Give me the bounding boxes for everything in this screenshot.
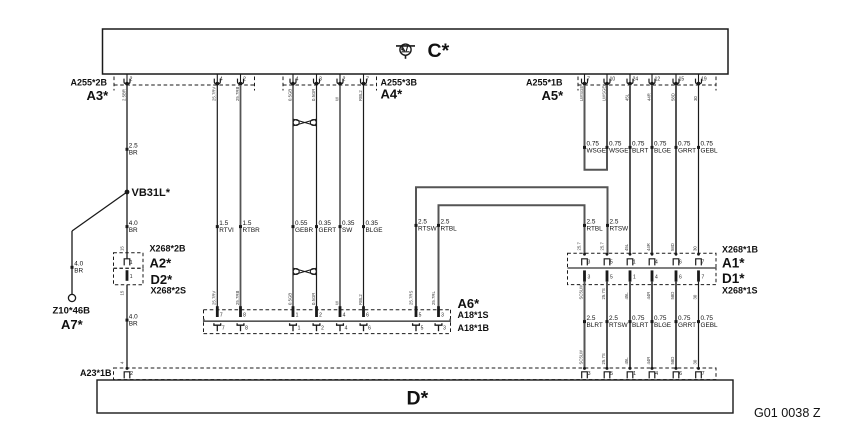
pin 1 of D1* (bar): [629, 270, 632, 281]
svg-text:45L: 45L: [624, 93, 629, 101]
pin 2 of A18*1S (bar): [315, 306, 318, 317]
wire 0.75 BLRT from D1* to A23*1B: [629, 282, 631, 368]
svg-text:LWSGE: LWSGE: [601, 86, 606, 101]
pin 6 of A23*1B (socket): [675, 367, 678, 370]
svg-text:D1*: D1*: [722, 271, 745, 286]
svg-text:A6*: A6*: [458, 296, 481, 311]
svg-text:3: 3: [319, 77, 322, 83]
svg-text:BLRT: BLRT: [632, 322, 648, 329]
svg-text:WSGE: WSGE: [609, 148, 629, 155]
wire 0.75 BLGE from D1* to A23*1B: [651, 282, 653, 368]
svg-text:0.35: 0.35: [342, 220, 355, 227]
svg-text:2: 2: [343, 77, 346, 83]
pin 7 of A18*1B (T socket): [214, 323, 221, 325]
connector A2* dashed box (X268*2B): [114, 253, 144, 268]
svg-text:25.7S: 25.7S: [601, 288, 606, 299]
svg-text:0.75: 0.75: [609, 141, 622, 148]
svg-text:25.7RB: 25.7RB: [235, 87, 240, 101]
wire value label 0.75 GEBL: [697, 320, 700, 323]
svg-text:4.0: 4.0: [74, 261, 83, 268]
svg-text:0.35: 0.35: [366, 220, 379, 227]
svg-text:1: 1: [298, 325, 301, 331]
wire value label 0.75 BLRT: [629, 146, 632, 149]
svg-text:2.5: 2.5: [609, 315, 618, 322]
svg-text:RBL2: RBL2: [358, 294, 363, 305]
svg-text:2.5: 2.5: [587, 219, 596, 226]
svg-text:25.7RL: 25.7RL: [431, 291, 436, 305]
wire 0.75 GEBL from A5* to X268*1B: [698, 85, 700, 254]
svg-text:6: 6: [368, 325, 371, 331]
svg-text:BLGE: BLGE: [654, 148, 671, 155]
svg-text:0.75: 0.75: [678, 315, 691, 322]
connector A1* dashed box (X268*1B): [568, 253, 717, 268]
pin 15 of connector row at x=676.0: [675, 74, 677, 82]
svg-text:GRRT: GRRT: [678, 322, 696, 329]
svg-text:BR: BR: [129, 320, 138, 327]
svg-text:45L: 45L: [624, 243, 629, 251]
svg-text:0.75: 0.75: [654, 141, 667, 148]
pin 7 of connector row at x=584.5: [584, 74, 586, 82]
pin 5 of A18*1S (bar): [415, 306, 418, 317]
svg-text:2.5: 2.5: [418, 219, 427, 226]
twisted pair symbol lower (GEBR/GERT): [293, 269, 299, 275]
svg-text:44R: 44R: [646, 357, 651, 365]
svg-text:30: 30: [693, 96, 698, 101]
svg-text:GERT: GERT: [319, 227, 337, 234]
svg-text:0.5GB: 0.5GB: [287, 89, 292, 101]
svg-text:X268*2B: X268*2B: [150, 243, 187, 253]
svg-text:2.5: 2.5: [610, 219, 619, 226]
svg-text:GEBL: GEBL: [701, 148, 718, 155]
wire 0.75 GEBL from D1* to A23*1B: [698, 282, 700, 368]
pin 7 of D1* (bar): [697, 270, 700, 281]
svg-text:7: 7: [220, 312, 223, 318]
svg-text:12: 12: [655, 77, 661, 83]
svg-text:44R: 44R: [646, 292, 651, 300]
wire label 4.0 BR: [126, 225, 129, 228]
svg-text:Z10*46B: Z10*46B: [53, 306, 91, 317]
svg-text:45L: 45L: [624, 292, 629, 300]
svg-text:A3*: A3*: [87, 88, 110, 103]
wire 0.35 SW from top connector to A6*: [339, 85, 341, 307]
wire 2.5 BLRT from D1* to A23*1B: [584, 282, 586, 368]
svg-text:0.75: 0.75: [701, 141, 714, 148]
pin 24 of connector row at x=630.0: [629, 74, 631, 82]
svg-text:RTSW: RTSW: [610, 226, 630, 233]
svg-text:58D: 58D: [670, 93, 675, 101]
wire 0.75 GRRT from A5* to X268*1B: [675, 85, 677, 254]
wire value label 1.5 RTBR: [239, 225, 242, 228]
pin 1 of A23*1B (socket): [629, 367, 632, 370]
svg-text:3: 3: [443, 325, 446, 331]
svg-text:A1*: A1*: [722, 256, 745, 271]
pin 1 socket in A2*: [124, 259, 130, 266]
pin 1 of A1* (socket): [629, 253, 632, 256]
svg-text:2: 2: [319, 312, 322, 318]
wire 2.5 BR from A3* pin 2 down to node VB31L*: [126, 85, 128, 192]
svg-text:0.5GR: 0.5GR: [311, 89, 316, 101]
pin 3 of connector row at x=316.5: [316, 74, 318, 82]
wire value label 0.75 GEBL: [697, 146, 700, 149]
svg-text:RTSW: RTSW: [609, 322, 629, 329]
pin 4 of D1* (bar): [651, 270, 654, 281]
svg-text:30: 30: [693, 246, 698, 251]
svg-text:GEBL: GEBL: [701, 322, 718, 329]
pin 8 of A18*1S (bar): [239, 306, 242, 317]
pin 5 of D1* (bar): [606, 270, 609, 281]
pin 6 of A1* (socket): [675, 253, 678, 256]
svg-text:8: 8: [243, 312, 246, 318]
node VB31L* junction dot: [125, 190, 130, 195]
wire 4.0 BR from D2* to A23*1B: [126, 285, 128, 368]
svg-text:A23*1B: A23*1B: [80, 368, 112, 378]
svg-text:X268*1B: X268*1B: [722, 244, 759, 254]
svg-text:6: 6: [679, 260, 682, 266]
svg-text:D*: D*: [407, 388, 429, 410]
pin 2 of A18*1B (T socket): [313, 323, 320, 325]
svg-text:X268*1S: X268*1S: [722, 286, 758, 296]
svg-text:58D: 58D: [670, 357, 675, 365]
pin 1 bar in D2*: [126, 270, 129, 281]
svg-text:BR: BR: [129, 227, 138, 234]
svg-text:1.5: 1.5: [219, 220, 228, 227]
pin 3 of A23*1B (socket): [583, 367, 586, 370]
wire value label 0.35 BLGE: [362, 225, 365, 228]
svg-text:0.55: 0.55: [295, 220, 308, 227]
pin 2 of connector row at x=340.0: [339, 74, 341, 82]
svg-text:6: 6: [679, 275, 682, 281]
svg-text:0.75: 0.75: [587, 141, 600, 148]
svg-text:RTBR: RTBR: [243, 227, 261, 234]
pin 4 of A23*1B (socket): [651, 367, 654, 370]
svg-text:4: 4: [655, 260, 658, 266]
pin 3 of D1* (bar): [583, 270, 586, 281]
svg-text:SC5LW: SC5LW: [579, 284, 584, 299]
svg-text:BLGE: BLGE: [654, 322, 671, 329]
icon instrument-cluster symbol in C*: [396, 44, 415, 59]
wire 4.0 BR from VB31L* down to connector A2*: [126, 192, 128, 259]
svg-text:BR: BR: [74, 268, 83, 275]
wire 1.5 RTVI from top connector to A6*: [216, 85, 218, 307]
twisted pair symbol upper (GEBR/GERT): [293, 120, 299, 126]
svg-text:7: 7: [222, 325, 225, 331]
svg-text:1: 1: [633, 275, 636, 281]
svg-text:15: 15: [679, 77, 685, 83]
svg-text:7: 7: [702, 260, 705, 266]
svg-text:19: 19: [701, 77, 707, 83]
control unit C1 box C*: [103, 29, 729, 74]
svg-text:5: 5: [610, 371, 613, 377]
svg-text:7: 7: [702, 371, 705, 377]
pin 12 of connector row at x=652.0: [651, 74, 653, 82]
svg-text:25.7RS: 25.7RS: [409, 291, 414, 305]
connector A23*1B dashed box: [114, 368, 717, 380]
svg-text:RTVI: RTVI: [219, 227, 234, 234]
svg-text:4: 4: [220, 77, 223, 83]
wire 2.5 RTBL horizontal link A6* pin3 to X268*1B pin3: [439, 205, 585, 306]
pin 2 of A23*1B (socket): [126, 367, 129, 370]
wire label 0.75 WSGE left: [583, 146, 586, 149]
pin 7 of A1* (socket): [697, 253, 700, 256]
connector mating bus line in A6*: [204, 319, 450, 321]
svg-text:0.5GR: 0.5GR: [311, 293, 316, 305]
wire value label 0.75 GRRT: [675, 320, 678, 323]
svg-text:25.7RB: 25.7RB: [235, 291, 240, 305]
wire label 4.0 BR lower: [126, 319, 129, 322]
pin 2 of connector row at x=127.0: [126, 74, 128, 82]
svg-text:0.75: 0.75: [654, 315, 667, 322]
svg-text:5: 5: [421, 325, 424, 331]
svg-text:GEBR: GEBR: [295, 227, 313, 234]
svg-text:RTBL: RTBL: [441, 226, 458, 233]
pin 19 of connector row at x=698.5: [698, 74, 700, 82]
svg-text:1: 1: [296, 312, 299, 318]
svg-text:VB31L*: VB31L*: [132, 187, 171, 199]
connector A255*2B dashed face: [114, 84, 255, 86]
svg-text:44R: 44R: [646, 243, 651, 251]
wire label 2.5 RTBL at A6*: [437, 224, 440, 227]
svg-text:44R: 44R: [646, 93, 651, 101]
svg-text:7: 7: [702, 275, 705, 281]
svg-text:25.7RV: 25.7RV: [212, 87, 217, 101]
pin 3 of A18*1B (T socket): [435, 323, 442, 325]
connector D2* dashed box (X268*2S): [114, 268, 144, 285]
svg-text:30: 30: [693, 294, 698, 299]
svg-text:WSGE: WSGE: [587, 148, 607, 155]
svg-text:LWSGE: LWSGE: [579, 86, 584, 101]
svg-text:G01 0038 Z: G01 0038 Z: [754, 406, 821, 420]
pin 4 of A18*1S (bar): [339, 306, 342, 317]
svg-text:1: 1: [633, 371, 636, 377]
wire 0.35 GERT from top connector to A6*: [316, 85, 318, 307]
svg-text:X268*2S: X268*2S: [151, 285, 187, 295]
svg-text:5: 5: [610, 275, 613, 281]
svg-text:8: 8: [245, 325, 248, 331]
wire value label 0.75 BLGE: [651, 146, 654, 149]
svg-text:2.5: 2.5: [129, 143, 138, 150]
svg-text:GRRT: GRRT: [678, 148, 696, 155]
pin 6 of A18*1S (bar): [362, 306, 365, 317]
wire value label 0.75 GRRT: [675, 146, 678, 149]
pin 8 of A18*1B (T socket): [237, 323, 244, 325]
svg-text:BR: BR: [129, 150, 138, 157]
svg-text:2: 2: [130, 77, 133, 83]
wire 0.35 BLGE from top connector to A6*: [363, 85, 365, 307]
svg-text:A255*2B: A255*2B: [71, 77, 108, 87]
pin 3 of A1* (socket): [583, 253, 586, 256]
svg-text:4: 4: [343, 312, 346, 318]
svg-text:1.5: 1.5: [243, 220, 252, 227]
svg-text:RTBL: RTBL: [587, 226, 604, 233]
svg-text:2.5: 2.5: [587, 315, 596, 322]
svg-text:30: 30: [693, 359, 698, 364]
pin 7 of connector row at x=363.5: [363, 74, 365, 82]
svg-text:4: 4: [345, 325, 348, 331]
svg-text:15: 15: [120, 246, 125, 251]
svg-text:0.75: 0.75: [632, 315, 645, 322]
svg-text:5: 5: [610, 260, 613, 266]
svg-text:0.75: 0.75: [678, 141, 691, 148]
svg-text:45L: 45L: [624, 357, 629, 365]
wire value label 0.75 BLRT: [629, 320, 632, 323]
wire 0.75 GRRT from D1* to A23*1B: [675, 282, 677, 368]
svg-text:3: 3: [588, 260, 591, 266]
svg-text:58D: 58D: [670, 292, 675, 300]
svg-text:BLRT: BLRT: [587, 322, 603, 329]
connector A255*3B dashed face: [283, 84, 377, 86]
svg-text:1: 1: [633, 260, 636, 266]
pin 4 of A1* (socket): [651, 253, 654, 256]
svg-text:3: 3: [588, 275, 591, 281]
pin 5 of A1* (socket): [606, 253, 609, 256]
wire 0.75 BLGE from A5* to X268*1B: [651, 85, 653, 254]
svg-text:C*: C*: [428, 40, 450, 62]
mating line between A1* and D1*: [568, 267, 717, 269]
svg-text:BLRT: BLRT: [632, 148, 648, 155]
connector A6* dashed box outline: [204, 309, 451, 311]
svg-text:25.7: 25.7: [600, 242, 605, 251]
svg-text:SC5LW: SC5LW: [579, 349, 584, 364]
svg-text:A18*1S: A18*1S: [458, 310, 489, 320]
connector D1* dashed box (X268*1S): [568, 268, 717, 285]
svg-text:25.7RV: 25.7RV: [212, 291, 217, 305]
wire label 4.0 BR on branch: [71, 266, 74, 269]
pin 4 of connector row at x=293.0: [292, 74, 294, 82]
pin 7 of A18*1S (bar): [216, 306, 219, 317]
wire label 0.75 WSGE right: [606, 146, 609, 149]
svg-text:10: 10: [610, 77, 616, 83]
svg-text:A2*: A2*: [150, 255, 173, 270]
wire 2.5 RTSW horizontal link A6* pin5 to X268*1B pin5: [416, 187, 608, 306]
svg-text:1: 1: [130, 274, 133, 280]
svg-text:RBL2: RBL2: [358, 90, 363, 101]
pin 5 of A23*1B (socket): [606, 367, 609, 370]
wire pair 0.75 WSGE joined in U loop: [585, 85, 608, 170]
svg-text:2.5BR: 2.5BR: [121, 89, 126, 101]
wire label 2.5 RTSW at A6*: [415, 224, 418, 227]
wire value label 2.5 BLRT: [583, 320, 586, 323]
svg-text:4.0: 4.0: [129, 220, 138, 227]
control unit box D*: [97, 380, 733, 413]
svg-text:7: 7: [366, 77, 369, 83]
connector A255*1B dashed face: [578, 84, 716, 86]
pin 5 of A18*1B (T socket): [413, 323, 420, 325]
svg-text:A18*1B: A18*1B: [458, 323, 490, 333]
svg-text:3: 3: [588, 371, 591, 377]
svg-text:RTSW: RTSW: [418, 226, 438, 233]
svg-text:0.75: 0.75: [632, 141, 645, 148]
wire 2.5 RTSW from D1* to A23*1B: [606, 282, 608, 368]
svg-text:7: 7: [587, 77, 590, 83]
branch wire VB31L* to ground point Z10*46B: [72, 192, 127, 231]
svg-text:4: 4: [296, 77, 299, 83]
pin 3 of A18*1S (bar): [437, 306, 440, 317]
pin 1 of A18*1S (bar): [292, 306, 295, 317]
pin 6 of A18*1B (T socket): [360, 323, 367, 325]
svg-text:0.5GB: 0.5GB: [287, 293, 292, 305]
pin 4 of connector row at x=217.3: [216, 74, 218, 82]
svg-text:3: 3: [441, 312, 444, 318]
svg-text:4.0: 4.0: [129, 313, 138, 320]
terminal circle Z10*46B: [68, 294, 75, 301]
svg-text:25.7S: 25.7S: [601, 353, 606, 364]
svg-text:5: 5: [419, 312, 422, 318]
wire 1.5 RTBR from top connector to A6*: [240, 85, 242, 307]
svg-text:BLGE: BLGE: [366, 227, 383, 234]
pin 4 of A18*1B (T socket): [337, 323, 344, 325]
svg-text:A7*: A7*: [61, 317, 84, 332]
pin 7 of A23*1B (socket): [697, 367, 700, 370]
svg-text:25.7: 25.7: [577, 242, 582, 251]
svg-text:6: 6: [366, 312, 369, 318]
pin 1 of A18*1B (T socket): [290, 323, 297, 325]
svg-text:0.75: 0.75: [701, 315, 714, 322]
wire value label 0.75 BLGE: [651, 320, 654, 323]
svg-text:0.35: 0.35: [319, 220, 332, 227]
svg-text:2.5: 2.5: [441, 219, 450, 226]
pin 2 of connector row at x=240.5: [240, 74, 242, 82]
svg-text:6: 6: [679, 371, 682, 377]
svg-text:A4*: A4*: [381, 87, 404, 102]
svg-text:A255*1B: A255*1B: [526, 77, 563, 87]
wire label 2.5 RTBL at X268: [583, 224, 586, 227]
wire 0.55 GEBR from top connector to A6*: [292, 85, 294, 307]
svg-text:58D: 58D: [670, 243, 675, 251]
svg-text:1: 1: [130, 260, 133, 266]
pin 10 of connector row at x=607.0: [606, 74, 608, 82]
svg-text:15: 15: [120, 290, 125, 295]
svg-text:SW: SW: [342, 227, 353, 234]
svg-text:2: 2: [243, 77, 246, 83]
wire label 2.5 BR: [126, 148, 129, 151]
svg-text:4: 4: [655, 275, 658, 281]
svg-text:A5*: A5*: [542, 88, 565, 103]
wire value label 0.35 SW: [339, 225, 342, 228]
wire value label 1.5 RTVI: [216, 225, 219, 228]
svg-text:2: 2: [321, 325, 324, 331]
svg-text:4: 4: [655, 371, 658, 377]
wire value label 0.55 GEBR: [292, 225, 295, 228]
wire 0.75 BLRT from A5* to X268*1B: [629, 85, 631, 254]
wire label 2.5 RTSW at X268: [606, 224, 609, 227]
wire value label 2.5 RTSW: [606, 320, 609, 323]
pin 6 of D1* (bar): [675, 270, 678, 281]
svg-text:24: 24: [633, 77, 639, 83]
wire value label 0.35 GERT: [315, 225, 318, 228]
svg-text:2: 2: [130, 371, 133, 377]
